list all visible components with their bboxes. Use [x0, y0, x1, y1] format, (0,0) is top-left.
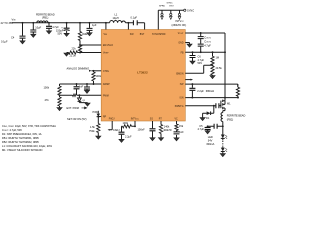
resistor 22k [72, 45, 82, 52]
svg-text:50V: 50V [198, 61, 203, 65]
capacitor C4 0.1uF [1, 23, 26, 44]
IC U1 LT3922 body [101, 30, 185, 122]
capacitor 2.2uF ISP-ISN filter [189, 84, 214, 98]
svg-text:VREF: VREF [103, 53, 109, 55]
notes text block [2, 124, 56, 152]
svg-text:750k: 750k [89, 129, 95, 133]
svg-text:1M: 1M [216, 56, 220, 60]
capacitor CIN1 10uF [30, 23, 41, 38]
svg-text:PWM: PWM [103, 95, 109, 97]
wire RP pin [98, 117, 101, 124]
wire INTVCC pin [134, 121, 136, 126]
svg-text:FERRITE BEAD: FERRITE BEAD [227, 114, 246, 118]
svg-text:22k: 22k [72, 46, 77, 50]
svg-text:FB2: WURTH 742792662, 0805: FB2: WURTH 742792662, 0805 [2, 140, 39, 144]
svg-text:0.1µF: 0.1µF [1, 40, 8, 44]
svg-text:D1: NXP PMEG6010CEJ, 60V, 1A: D1: NXP PMEG6010CEJ, 60V, 1A [2, 132, 42, 136]
capacitor C6 4.7uF 50V [190, 52, 205, 65]
capacitor 1nF on RAMP [74, 84, 84, 95]
svg-text:100k: 100k [44, 85, 50, 89]
resistor 1.5k at RP [89, 124, 101, 140]
wire BST pin drop [144, 23, 146, 30]
svg-text:0.1µF: 0.1µF [131, 16, 138, 20]
svg-text:BST: BST [140, 34, 145, 36]
wire RAMP net [60, 83, 102, 85]
svg-text:PWM: PWM [93, 110, 99, 114]
svg-text:CTRL: CTRL [103, 71, 110, 73]
wire EN/UVLO [80, 44, 101, 46]
svg-text:ISN: ISN [180, 98, 184, 100]
wire ISP [185, 84, 238, 86]
svg-text:LED: LED [208, 135, 213, 139]
capacitor C5 4.7uF across LED [198, 124, 223, 134]
svg-text:21.0k: 21.0k [70, 54, 77, 58]
capacitor 0.1uF BST [131, 16, 138, 26]
capacitor gate coupling [216, 103, 219, 108]
svg-text:PWMTG: PWMTG [175, 106, 184, 108]
resistor 100k RAMP [44, 84, 63, 111]
svg-text:2.2µF: 2.2µF [197, 89, 204, 93]
svg-text:100nF: 100nF [138, 128, 146, 132]
wire ISN rail [185, 97, 238, 99]
resistor 140k RT [158, 121, 172, 141]
svg-text:34V: 34V [208, 139, 213, 143]
wire LED+ node [222, 122, 224, 135]
svg-text:LT3922: LT3922 [137, 70, 148, 74]
svg-text:D1: D1 [206, 116, 210, 120]
wire FB pin [185, 65, 212, 73]
svg-text:SPRD: SPRD [159, 5, 165, 7]
svg-text:4.7µF: 4.7µF [204, 43, 211, 47]
svg-text:SYNC/SPRD: SYNC/SPRD [152, 34, 166, 36]
wire FB-sense rail [185, 51, 225, 53]
svg-text:680mΩ: 680mΩ [206, 89, 214, 93]
transistor M1 [221, 100, 231, 113]
capacitor 100nF SS [138, 121, 156, 141]
svg-text:C4: C4 [11, 36, 15, 40]
svg-text:M1: VISHAY SILICONIX SI7611DN: M1: VISHAY SILICONIX SI7611DN [2, 148, 42, 152]
ferrite bead FB2 [221, 113, 245, 122]
svg-text:M1: M1 [227, 102, 231, 106]
wire PWMTG gate drive [185, 105, 221, 106]
resistor 15k + capacitor 1nF VC [174, 121, 185, 141]
resistor 20.5k FB bottom [210, 65, 223, 78]
wire FADJ pin [108, 121, 121, 132]
svg-text:140k: 140k [164, 124, 170, 128]
wire VREF node [80, 52, 101, 54]
capacitor COUT1 COUT2 [198, 33, 212, 52]
svg-text:CIN1, CIN2: 10µF, 50V, X7R, TD: CIN1, CIN2: 10µF, 50V, X7R, TDK C3225X7S… [2, 124, 56, 128]
svg-text:VOUT: VOUT [178, 33, 185, 35]
resistor 499k EN/UVLO top [78, 23, 88, 45]
resistor 47k PWM [73, 94, 78, 96]
svg-text:GND: GND [178, 43, 183, 45]
svg-text:VIN: VIN [104, 34, 108, 36]
svg-text:(FB1): (FB1) [42, 16, 49, 20]
svg-text:(FB2): (FB2) [227, 117, 234, 121]
svg-text:RAMP: RAMP [103, 83, 110, 86]
svg-text:100k: 100k [123, 121, 129, 125]
svg-text:FADJ: FADJ [113, 128, 120, 132]
svg-text:100k: 100k [96, 74, 102, 78]
svg-text:1nF: 1nF [179, 130, 184, 134]
svg-text:ANALOG DIMMING: ANALOG DIMMING [67, 67, 90, 71]
wire ISMON stub arrow [185, 79, 193, 81]
svg-text:(230kHz OK): (230kHz OK) [172, 23, 187, 27]
diode at RP [97, 111, 101, 117]
ground GND pin [185, 43, 192, 48]
capacitor on RAMP to ground [84, 84, 90, 93]
svg-text:ISMON: ISMON [176, 73, 184, 75]
wire VIN rail [12, 22, 145, 24]
ferrite bead FB1 [36, 12, 55, 22]
svg-text:300mA: 300mA [206, 142, 214, 146]
resistor 100k INTVCC-FADJ [122, 121, 136, 128]
svg-text:499k: 499k [82, 32, 88, 36]
svg-text:SET OR ON (5V): SET OR ON (5V) [67, 117, 87, 121]
wire SYNC riser and jumper [158, 3, 194, 30]
diode D1 gate clamp [200, 106, 214, 121]
wire SW pin drop [127, 23, 129, 30]
capacitor 1uF at VIN pin [87, 23, 97, 36]
svg-text:RP: RP [103, 117, 107, 119]
svg-text:FB1: WURTH 742792651, 0805: FB1: WURTH 742792651, 0805 [2, 136, 39, 140]
capacitor 4.7uF [46, 23, 59, 34]
svg-text:SS: SS [150, 118, 154, 120]
svg-text:47k: 47k [45, 98, 50, 102]
wire PWM net [60, 94, 102, 96]
svg-text:1nF: 1nF [79, 84, 84, 88]
svg-text:2.2µF: 2.2µF [125, 135, 132, 139]
svg-text:10µH: 10µH [113, 16, 119, 20]
node ANALOG DIMMING / wire CTRL [67, 67, 102, 72]
svg-text:400kHz: 400kHz [163, 128, 172, 132]
svg-text:FB: FB [181, 52, 184, 54]
svg-text:50V: 50V [58, 32, 63, 36]
capacitor CIN2 150uF electrolytic [56, 23, 70, 37]
resistor 21.0k to ground [64, 51, 80, 58]
transistor Q1 [78, 95, 91, 106]
svg-text:VC: VC [175, 118, 179, 120]
wire VOUT vertical to M1 [224, 52, 226, 101]
inductor L1 10uH [110, 13, 126, 23]
node VIN input label [1, 18, 16, 25]
svg-text:20.5k: 20.5k [216, 66, 223, 70]
wire VIN pin drop [105, 23, 107, 30]
svg-text:FADJ: FADJ [109, 117, 115, 120]
capacitor 2.2uF INTVCC [119, 126, 133, 142]
resistor RSENSE [236, 84, 239, 98]
LED string [206, 135, 227, 157]
svg-text:15k: 15k [179, 124, 184, 128]
svg-text:INTVCC: INTVCC [131, 118, 140, 120]
svg-text:10µF: 10µF [35, 26, 41, 30]
svg-text:SYNC: SYNC [187, 8, 194, 12]
svg-text:EXT. PWM: EXT. PWM [67, 106, 79, 110]
svg-text:EN/UVLO: EN/UVLO [103, 45, 113, 47]
svg-text:ISP: ISP [180, 84, 184, 86]
svg-text:1.5k: 1.5k [90, 125, 96, 129]
svg-text:4.7µF: 4.7µF [198, 127, 205, 131]
junction dots [22, 22, 24, 24]
svg-text:1µF: 1µF [92, 23, 97, 27]
resistor 1M FB top [211, 52, 219, 65]
svg-text:4V TO 35V: 4V TO 35V [1, 21, 14, 25]
wire VOUT pin to output rail [185, 33, 225, 52]
svg-text:L1: COILCRAFT XAL5030-103, 10µ: L1: COILCRAFT XAL5030-103, 10µH, 20% [2, 144, 53, 148]
resistor 100k CTRL pulldown [92, 71, 102, 85]
svg-text:EXT: EXT [170, 5, 175, 7]
